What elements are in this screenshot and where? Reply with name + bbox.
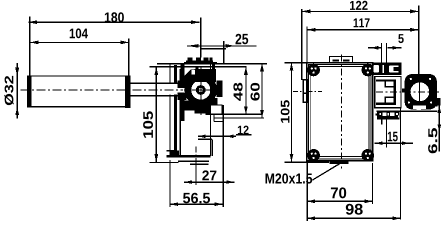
- foot tick: [166, 150, 175, 152]
- horizontal axis dashes in body: [307, 91, 322, 93]
- rod white fill: [130, 84, 186, 95]
- vertical center line right view: [341, 55, 343, 169]
- cylinder left thick band: [28, 76, 32, 107]
- head cross horizontal: [184, 89, 218, 91]
- rod clamp upper jaw: [177, 81, 186, 89]
- dim 5 left line: [368, 47, 382, 49]
- 70 right arrow: [365, 199, 373, 203]
- dim 60 line: [261, 63, 263, 118]
- axis tick left of body: [293, 91, 303, 93]
- dim 56.5 line: [170, 203, 223, 205]
- flange inner mid top: [385, 81, 395, 87]
- dim 98 line: [307, 217, 400, 219]
- label M20x1.5: [266, 173, 313, 183]
- dim 104 left arrow: [30, 41, 39, 45]
- dim 6.5 line: [438, 101, 440, 152]
- ext 15 left: [385, 120, 387, 148]
- body flange line 2 / 48 top ext: [150, 66, 247, 68]
- rod bottom edge: [130, 95, 186, 97]
- label 60: [251, 83, 260, 101]
- label 15: [388, 132, 398, 142]
- head block right bar: [212, 64, 215, 106]
- notch lower spout: [213, 115, 215, 122]
- internal plate line: [198, 138, 212, 140]
- 105L bottom arrow: [154, 154, 158, 162]
- dia32 bottom arrow: [15, 107, 19, 115]
- dim 180 right arrow: [191, 20, 200, 24]
- 60 bottom arrow: [260, 110, 264, 118]
- head cap knurled band: [186, 58, 213, 64]
- head hub hole: [199, 88, 203, 92]
- 6.5 down arrow: [437, 124, 441, 131]
- head block left bar: [180, 64, 184, 121]
- ext 6.5 lower: [377, 110, 438, 112]
- 98 left arrow: [307, 216, 315, 220]
- label 122: [350, 1, 368, 10]
- label 27: [202, 170, 216, 180]
- top boss: [330, 57, 353, 63]
- 12 right arrow: [226, 135, 234, 139]
- 117 left arrow: [307, 28, 316, 32]
- 48 bottom arrow: [244, 106, 248, 114]
- boss mark right: [343, 60, 350, 62]
- head ring lobes: [183, 62, 223, 113]
- dim 48 line: [245, 67, 247, 115]
- body top ext to 105R: [285, 62, 307, 64]
- label 98: [346, 204, 363, 215]
- dim 104 line: [30, 41, 129, 43]
- 98 right arrow: [392, 216, 400, 220]
- rod clamp lower jaw: [177, 93, 186, 101]
- dim 117 line: [307, 29, 419, 31]
- body second rect: [309, 65, 371, 159]
- dim dia32 line: [16, 63, 18, 119]
- body left wall bar: [174, 65, 177, 158]
- dim 12 line: [198, 135, 236, 137]
- 117 right arrow: [410, 28, 419, 32]
- flange inner mid bottom: [385, 97, 395, 104]
- label 104: [70, 28, 88, 38]
- label 56.5: [183, 193, 210, 204]
- label 5: [398, 34, 403, 43]
- ext 117 left: [306, 27, 308, 63]
- dim 180 left arrow: [29, 20, 38, 24]
- lower ext under 60: [214, 117, 264, 119]
- ext line right of 104: [128, 39, 130, 76]
- body bottom band: [166, 155, 210, 158]
- ext line head center (right of 180): [200, 18, 202, 58]
- 5 right arrow: [392, 46, 400, 50]
- ext left of 56.5: [169, 160, 171, 207]
- dim 27 line: [184, 181, 234, 183]
- line under 25 region: [201, 48, 226, 50]
- ext 15/98 right: [399, 108, 401, 220]
- 56.5 left arrow: [170, 202, 178, 206]
- tick below block: [381, 120, 383, 125]
- label 180: [105, 12, 124, 22]
- head cross vertical: [200, 66, 202, 115]
- ext 70 right: [372, 163, 374, 204]
- 122 left arrow: [302, 10, 311, 14]
- 15 left arrow: [375, 141, 383, 145]
- dim 180 line: [29, 21, 200, 23]
- dim 70 line: [307, 200, 372, 202]
- 122 right arrow: [410, 10, 419, 14]
- hinge tick: [402, 89, 405, 93]
- 5 left arrow: [371, 46, 379, 50]
- 15 right arrow: [402, 141, 410, 145]
- ext 70/98 left: [306, 163, 308, 221]
- label 48: [233, 83, 242, 101]
- label 25: [236, 34, 249, 45]
- lower terminal block: [376, 111, 400, 120]
- 27 left arrow: [184, 180, 192, 184]
- lever mass: [405, 74, 441, 113]
- dim 25 left arrow: [187, 44, 199, 48]
- body cover rect: [311, 67, 369, 157]
- label 70: [331, 187, 346, 198]
- cylinder right end cap: [125, 77, 131, 109]
- 56.5 right arrow: [215, 202, 223, 206]
- body right edge: [209, 64, 211, 157]
- 6.5 up arrow: [437, 106, 441, 113]
- label 12: [238, 126, 249, 135]
- 70 left arrow: [307, 199, 315, 203]
- body left outer edge: [169, 64, 171, 156]
- ext line right of 25: [223, 41, 225, 64]
- M20 leader: [313, 163, 342, 180]
- conduit notch side view: [210, 105, 222, 114]
- 105L bottom ext: [150, 161, 179, 163]
- flange inner bottom bar: [376, 102, 396, 104]
- corner screw BL: [307, 149, 320, 162]
- rod top edge: [130, 82, 186, 84]
- upper terminal block: [372, 62, 401, 75]
- ring mass bottom-right lobe: [211, 98, 218, 105]
- dim 105 left line: [155, 67, 157, 162]
- ext 122/117 right: [418, 6, 420, 75]
- 105R top arrow: [290, 63, 294, 71]
- 12 left arrow: [198, 135, 206, 139]
- dim 122 line: [302, 10, 419, 12]
- body right step edge: [211, 139, 213, 156]
- label 117: [354, 18, 370, 27]
- head ring annulus: [185, 74, 217, 106]
- 27 right arrow: [226, 180, 234, 184]
- corner screw TR: [362, 64, 375, 77]
- gland center line left view: [195, 147, 197, 161]
- label 105~14: [281, 100, 290, 123]
- 60 top arrow: [260, 63, 264, 71]
- body outer rect: [307, 63, 373, 161]
- 48 top arrow: [244, 67, 248, 75]
- cylinder roller body: [28, 76, 130, 107]
- roller axis dash-dot: [376, 91, 442, 93]
- label 6.5: [428, 128, 437, 153]
- flange plate: [375, 76, 401, 107]
- dim 105 right line: [291, 63, 293, 162]
- body inner seam line: [179, 69, 181, 156]
- corner screw TL: [307, 64, 320, 77]
- M20 gland bar: [330, 161, 349, 164]
- body flange line 1: [157, 63, 267, 65]
- ext 5 right: [385, 43, 387, 62]
- body bottom ext to 105R: [285, 161, 330, 163]
- 12 underline: [236, 134, 252, 136]
- dim 25 line: [187, 45, 257, 47]
- label 105~4: [143, 111, 153, 137]
- side mounting tab: [303, 80, 307, 103]
- base plate line 2: [190, 164, 209, 165]
- ext 6.5 upper: [427, 105, 438, 107]
- dim 5 right line: [388, 47, 402, 49]
- dim 25 right arrow: [226, 44, 235, 48]
- ext 5 left: [380, 43, 382, 62]
- boss mark left: [333, 60, 340, 62]
- label dia32: [4, 76, 13, 105]
- foot block: [171, 151, 180, 158]
- head top white pocket: [191, 70, 195, 75]
- head top nub: [195, 67, 198, 69]
- dim 15 line: [375, 142, 413, 144]
- head inner hub: [196, 85, 206, 95]
- 105L top arrow: [154, 67, 158, 75]
- notch bottom ext: [206, 113, 263, 115]
- tab mid bar: [303, 92, 307, 94]
- corner screw BR: [362, 149, 375, 162]
- flange inner top bar: [376, 79, 396, 81]
- dim 104 right arrow: [121, 41, 130, 45]
- main center line left view: [21, 89, 184, 91]
- ext line left of 180/104: [29, 17, 31, 76]
- long ext line right of body: [222, 105, 224, 207]
- flange inner right bar: [394, 81, 396, 104]
- ext 122 left: [301, 9, 303, 80]
- roller cross vertical: [419, 80, 421, 105]
- base plate line: [178, 160, 209, 162]
- dia32 top arrow: [15, 68, 19, 76]
- 105R bottom arrow: [290, 154, 294, 162]
